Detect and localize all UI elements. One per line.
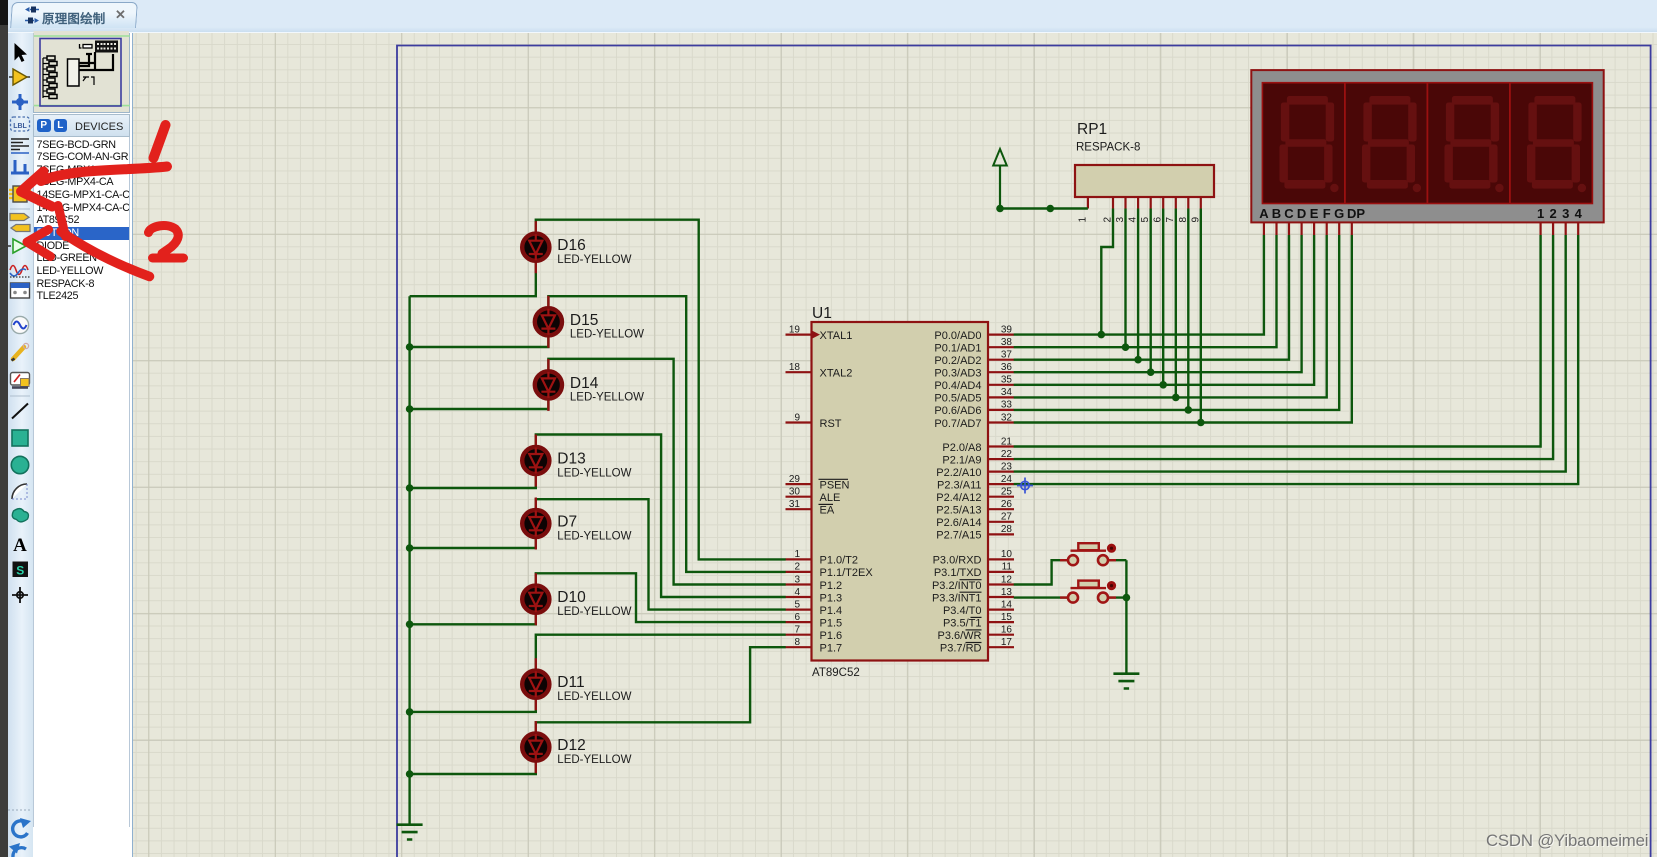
U1 pin 29 stub — [786, 483, 812, 485]
LED D7 — [522, 510, 549, 537]
LED D10 cathode stub — [535, 613, 537, 626]
display pin 2 stub — [1552, 222, 1554, 235]
U1 pin 33 stub — [988, 409, 1014, 411]
wire P2.2 chip to display digit 3 — [1014, 235, 1566, 472]
LED D13 cathode stub — [535, 474, 537, 487]
preview respack block — [80, 44, 93, 48]
wire P3.3 to button 2 — [1014, 596, 1068, 598]
junction D15 cathode on rail — [406, 343, 414, 351]
U1 pin 25 stub — [988, 496, 1014, 498]
U1 pin 14 stub — [988, 608, 1014, 610]
LED D11 — [522, 671, 549, 698]
junction button2/ground rail — [1123, 594, 1131, 602]
U1 pin 10 stub — [988, 558, 1014, 560]
resistor pack RP1 body — [1075, 165, 1214, 197]
wire RP1 pin 8 to P0.6 net — [1187, 209, 1189, 410]
U1 pin 19 stub — [786, 334, 812, 336]
wire P3.2 to button 1 — [1014, 560, 1068, 584]
U1 pin 7 stub — [786, 634, 812, 636]
U1 pin name P3.6/WR overline — [966, 629, 982, 631]
wire RP1 pin 6 to P0.4 net — [1162, 209, 1164, 385]
U1 pin 38 stub — [988, 346, 1014, 348]
U1 pin 3 stub — [786, 583, 812, 585]
display digit 1 segments — [1280, 96, 1339, 192]
wire power to RP1 pin 1 — [1000, 207, 1088, 209]
wire P0.4 chip to display — [1014, 235, 1314, 385]
U1 pin 21 stub — [988, 445, 1014, 447]
RP1 pin 7 stub — [1175, 197, 1177, 209]
toolbar dotted divider bottom — [8, 809, 32, 811]
wire RP1 pin 5 to P0.3 net — [1149, 209, 1151, 373]
op-amp U1 AT89C52 body — [812, 322, 989, 661]
wire D12 cathode to common rail — [410, 760, 536, 774]
display pin F stub — [1326, 222, 1328, 235]
display pin 1 stub — [1539, 222, 1541, 235]
display pin E stub — [1313, 222, 1315, 235]
RP1 pin 2 stub — [1112, 197, 1114, 209]
wire P1.x to D16 anode — [536, 220, 786, 560]
junction RP1 pin6/P0.4 — [1159, 381, 1167, 389]
annotation arrow 2 swoosh — [61, 232, 150, 277]
junction RP1 pin3/P0.1 — [1122, 343, 1130, 351]
display pin 3 stub — [1565, 222, 1567, 235]
display pin C stub — [1288, 222, 1290, 235]
tab bar — [8, 0, 1657, 33]
LED D7 cathode stub — [535, 537, 537, 550]
LED D10 — [522, 586, 549, 613]
U1 pin 36 stub — [988, 371, 1014, 373]
tab close button — [115, 7, 126, 23]
RP1 pin 4 stub — [1137, 197, 1139, 209]
junction D11 cathode on rail — [406, 708, 414, 716]
wire button 2 to ground rail — [1108, 596, 1126, 598]
wire P0.5 chip to display — [1014, 235, 1327, 397]
wire P1.x to D14 anode — [548, 359, 785, 585]
toolbar rotate anticlockwise — [9, 843, 26, 857]
ground symbol left — [397, 825, 423, 840]
toolbar 2D box mode — [12, 430, 28, 446]
annotation numeral 2 top — [149, 226, 179, 254]
toolbar selection arrow — [15, 43, 28, 62]
U1 XTAL1 clock arrow — [812, 331, 820, 339]
U1 pin 35 stub — [988, 384, 1014, 386]
wire D15 cathode to common rail — [410, 335, 549, 347]
wire button 1 to ground rail — [1108, 559, 1126, 561]
U1 pin 28 stub — [988, 533, 1014, 535]
U1 pin name P3.5/T1 overline — [971, 616, 982, 618]
wire P0.3 chip to display — [1014, 235, 1302, 372]
display digit 2 segments — [1362, 96, 1421, 192]
U1 pin 11 stub — [988, 571, 1014, 573]
U1 pin 12 stub — [988, 583, 1014, 585]
U1 pin name P3.2/INT0 overline — [960, 579, 982, 581]
wire P1.x to D13 anode — [536, 435, 786, 598]
preview LED column — [43, 56, 57, 99]
toolbar instruments mode — [11, 373, 30, 388]
U1 pin 17 stub — [988, 646, 1014, 648]
LED D11 anode stub — [535, 658, 537, 671]
toolbar divider — [10, 395, 30, 397]
toolbar text script mode — [11, 139, 29, 153]
LED D14 — [535, 371, 562, 398]
U1 pin 26 stub — [988, 508, 1014, 510]
U1 pin 9 stub — [786, 421, 812, 423]
LED D14 cathode stub — [547, 398, 549, 411]
toolbar 2D arc mode — [12, 484, 27, 499]
toolbar terminals mode — [10, 214, 30, 232]
U1 pin 15 stub — [988, 621, 1014, 623]
LED D12 — [522, 734, 549, 761]
U1 pin 32 stub — [988, 421, 1014, 423]
RP1 pin 6 stub — [1162, 197, 1164, 209]
toolbar 2D line mode — [12, 404, 28, 419]
junction D13 cathode on rail — [406, 484, 414, 492]
U1 pin 4 stub — [786, 596, 812, 598]
U1 pin 1 stub — [786, 558, 812, 560]
wire RP1 pin 4 to P0.2 net — [1137, 209, 1139, 360]
junction D14 cathode on rail — [406, 405, 414, 413]
U1 pin 39 stub — [988, 334, 1014, 336]
preview green guides — [34, 31, 130, 107]
U1 pin 27 stub — [988, 521, 1014, 523]
push button 1 — [1060, 543, 1116, 565]
wire P1.x to D15 anode — [548, 296, 785, 572]
display digit 3 segments — [1445, 96, 1504, 192]
tab title — [42, 8, 106, 27]
toolbar buses mode — [11, 160, 29, 173]
preview bus wires — [79, 52, 113, 70]
RP1 pin 9 stub — [1200, 197, 1202, 209]
toolbar voltage probe mode — [12, 343, 29, 360]
ground symbol right — [1113, 674, 1139, 689]
toolbar 2D marker mode — [12, 587, 28, 603]
toolbar subcircuit mode — [9, 186, 31, 202]
junction D12 cathode on rail — [406, 770, 414, 778]
display digit separator 1 — [1344, 83, 1346, 204]
LED D11 cathode stub — [535, 698, 537, 711]
annotation arrow 2 head — [27, 230, 51, 257]
annotation arrow 1 shaft — [41, 167, 167, 182]
wire P1.x to D10 anode — [536, 573, 786, 622]
LED D12 anode stub — [535, 721, 537, 734]
LED D7 anode stub — [535, 498, 537, 511]
LED D16 — [522, 234, 549, 261]
LED D16 anode stub — [535, 221, 537, 234]
U1 pin 6 stub — [786, 621, 812, 623]
tab icon — [23, 5, 41, 27]
toolbar device pins mode — [8, 239, 32, 253]
wire P0.2 chip to display — [1014, 235, 1289, 360]
LED D15 cathode stub — [547, 335, 549, 348]
toolbar graph mode — [10, 266, 30, 278]
cursor crosshair — [1017, 478, 1033, 494]
wire D14 cathode to common rail — [410, 398, 549, 409]
U1 pin 18 stub — [786, 371, 812, 373]
LED D12 cathode stub — [535, 761, 537, 774]
U1 pin 2 stub — [786, 571, 812, 573]
display pin DP stub — [1351, 222, 1353, 235]
junction on power wire — [1047, 205, 1055, 213]
wire P2.1 chip to display digit 2 — [1014, 235, 1553, 459]
display pin A stub — [1263, 222, 1265, 235]
power symbol arrow — [999, 165, 1001, 209]
RP1 pin 8 stub — [1187, 197, 1189, 209]
object preview panel — [33, 33, 130, 113]
toolbar 2D symbol mode — [13, 562, 29, 578]
wire ground rail right — [1125, 560, 1127, 674]
toolbar 2D closed path mode — [12, 509, 28, 522]
U1 pin name PSEN overline — [819, 478, 849, 480]
LED D10 anode stub — [535, 573, 537, 586]
preview buttons — [83, 77, 94, 85]
annotation arrow 2 elbow — [58, 206, 66, 237]
U1 pin 16 stub — [988, 634, 1014, 636]
display digit separator 2 — [1426, 83, 1428, 204]
LED D14 anode stub — [547, 359, 549, 372]
wire P0.1 chip to display — [1014, 235, 1277, 347]
RP1 pin 1 stub — [1087, 197, 1089, 209]
LED D13 — [522, 447, 549, 474]
U1 pin name EA overline — [819, 503, 834, 505]
display digit 4 segments — [1527, 96, 1586, 192]
display pin D stub — [1300, 222, 1302, 235]
preview chip block — [68, 59, 80, 86]
annotation numeral 1 — [154, 125, 166, 158]
LED D15 anode stub — [547, 296, 549, 309]
wire D7 cathode to common rail — [410, 537, 536, 549]
U1 pin name P3.7/RD overline — [966, 642, 982, 644]
wire RP1 pin 7 to P0.5 net — [1175, 209, 1177, 398]
wire RP1 pin 3 to P0.1 net — [1124, 209, 1126, 348]
wire D10 cathode to common rail — [410, 612, 536, 624]
junction D7 cathode on rail — [406, 544, 414, 552]
U1 pin name P3.3/INT1 overline — [960, 591, 982, 593]
annotation arrow 1 head — [21, 172, 52, 207]
wire P0.0 chip to display — [1014, 235, 1264, 335]
7-segment display frame — [1251, 70, 1603, 222]
junction RP1 pin8/P0.6 — [1185, 406, 1193, 414]
U1 pin 13 stub — [988, 596, 1014, 598]
junction RP1 pin2/P0.0 — [1098, 331, 1106, 339]
toolbar junction dot mode — [12, 94, 28, 110]
wire RP1 pin 2 to P0.0 net — [1101, 209, 1113, 335]
wire D16 cathode to common rail — [410, 260, 536, 296]
junction RP1 pin7/P0.5 — [1172, 394, 1180, 402]
wire LED common cathode rail — [408, 296, 410, 825]
U1 pin 34 stub — [988, 396, 1014, 398]
LED D15 — [535, 308, 562, 335]
wire D11 cathode to common rail — [410, 697, 536, 712]
U1 pin 8 stub — [786, 646, 812, 648]
7-segment display window — [1262, 83, 1592, 204]
LED D16 cathode stub — [535, 261, 537, 274]
toolbar rotate clockwise — [13, 818, 31, 837]
devices header — [33, 114, 130, 137]
U1 pin 5 stub — [786, 608, 812, 610]
wire P0.6 chip to display — [1014, 235, 1339, 410]
wire P0.7 chip to display — [1014, 235, 1352, 423]
U1 pin 22 stub — [988, 458, 1014, 460]
junction D10 cathode on rail — [406, 621, 414, 629]
toolbar component mode — [9, 69, 30, 85]
U1 pin 37 stub — [988, 359, 1014, 361]
U1 pin 31 stub — [786, 508, 812, 510]
LED D13 anode stub — [535, 435, 537, 448]
wire P2.0 chip to display digit 1 — [1014, 235, 1541, 447]
RP1 pin 3 stub — [1124, 197, 1126, 209]
display pin B stub — [1275, 222, 1277, 235]
junction at power symbol — [996, 205, 1004, 213]
toolbar wire label mode — [11, 117, 30, 131]
left toolbar — [8, 33, 33, 857]
preview sheet border — [40, 39, 121, 107]
display pin 4 stub — [1577, 222, 1579, 235]
junction RP1 pin4/P0.2 — [1134, 356, 1142, 364]
devices list — [33, 137, 130, 827]
display pin G stub — [1338, 222, 1340, 235]
wire P1.x to D7 anode — [536, 499, 786, 609]
junction RP1 pin9/P0.7 — [1197, 419, 1205, 427]
U1 pin 24 stub — [988, 483, 1014, 485]
watermark — [1486, 831, 1648, 851]
U1 pin 23 stub — [988, 471, 1014, 473]
toolbar tape recorder mode — [11, 283, 30, 298]
junction RP1 pin5/P0.3 — [1147, 368, 1155, 376]
U1 pin 30 stub — [786, 496, 812, 498]
preview display block — [95, 41, 118, 53]
toolbar 2D circle mode — [11, 456, 28, 473]
wire P1.6 to D11 anode — [536, 635, 786, 672]
wire RP1 pin 9 to P0.7 net — [1200, 209, 1202, 423]
wire D13 cathode to common rail — [410, 474, 536, 489]
RP1 pin 5 stub — [1150, 197, 1152, 209]
display digit separator 3 — [1509, 83, 1511, 204]
toolbar generator mode — [11, 316, 28, 333]
push button 2 — [1060, 581, 1116, 603]
wire P2.3 chip to display digit 4 — [1014, 235, 1578, 484]
sheet border — [397, 46, 1651, 857]
wire P1.7 to D12 anode — [536, 647, 786, 734]
annotation numeral 2 base — [153, 254, 184, 263]
window left edge — [0, 0, 8, 857]
